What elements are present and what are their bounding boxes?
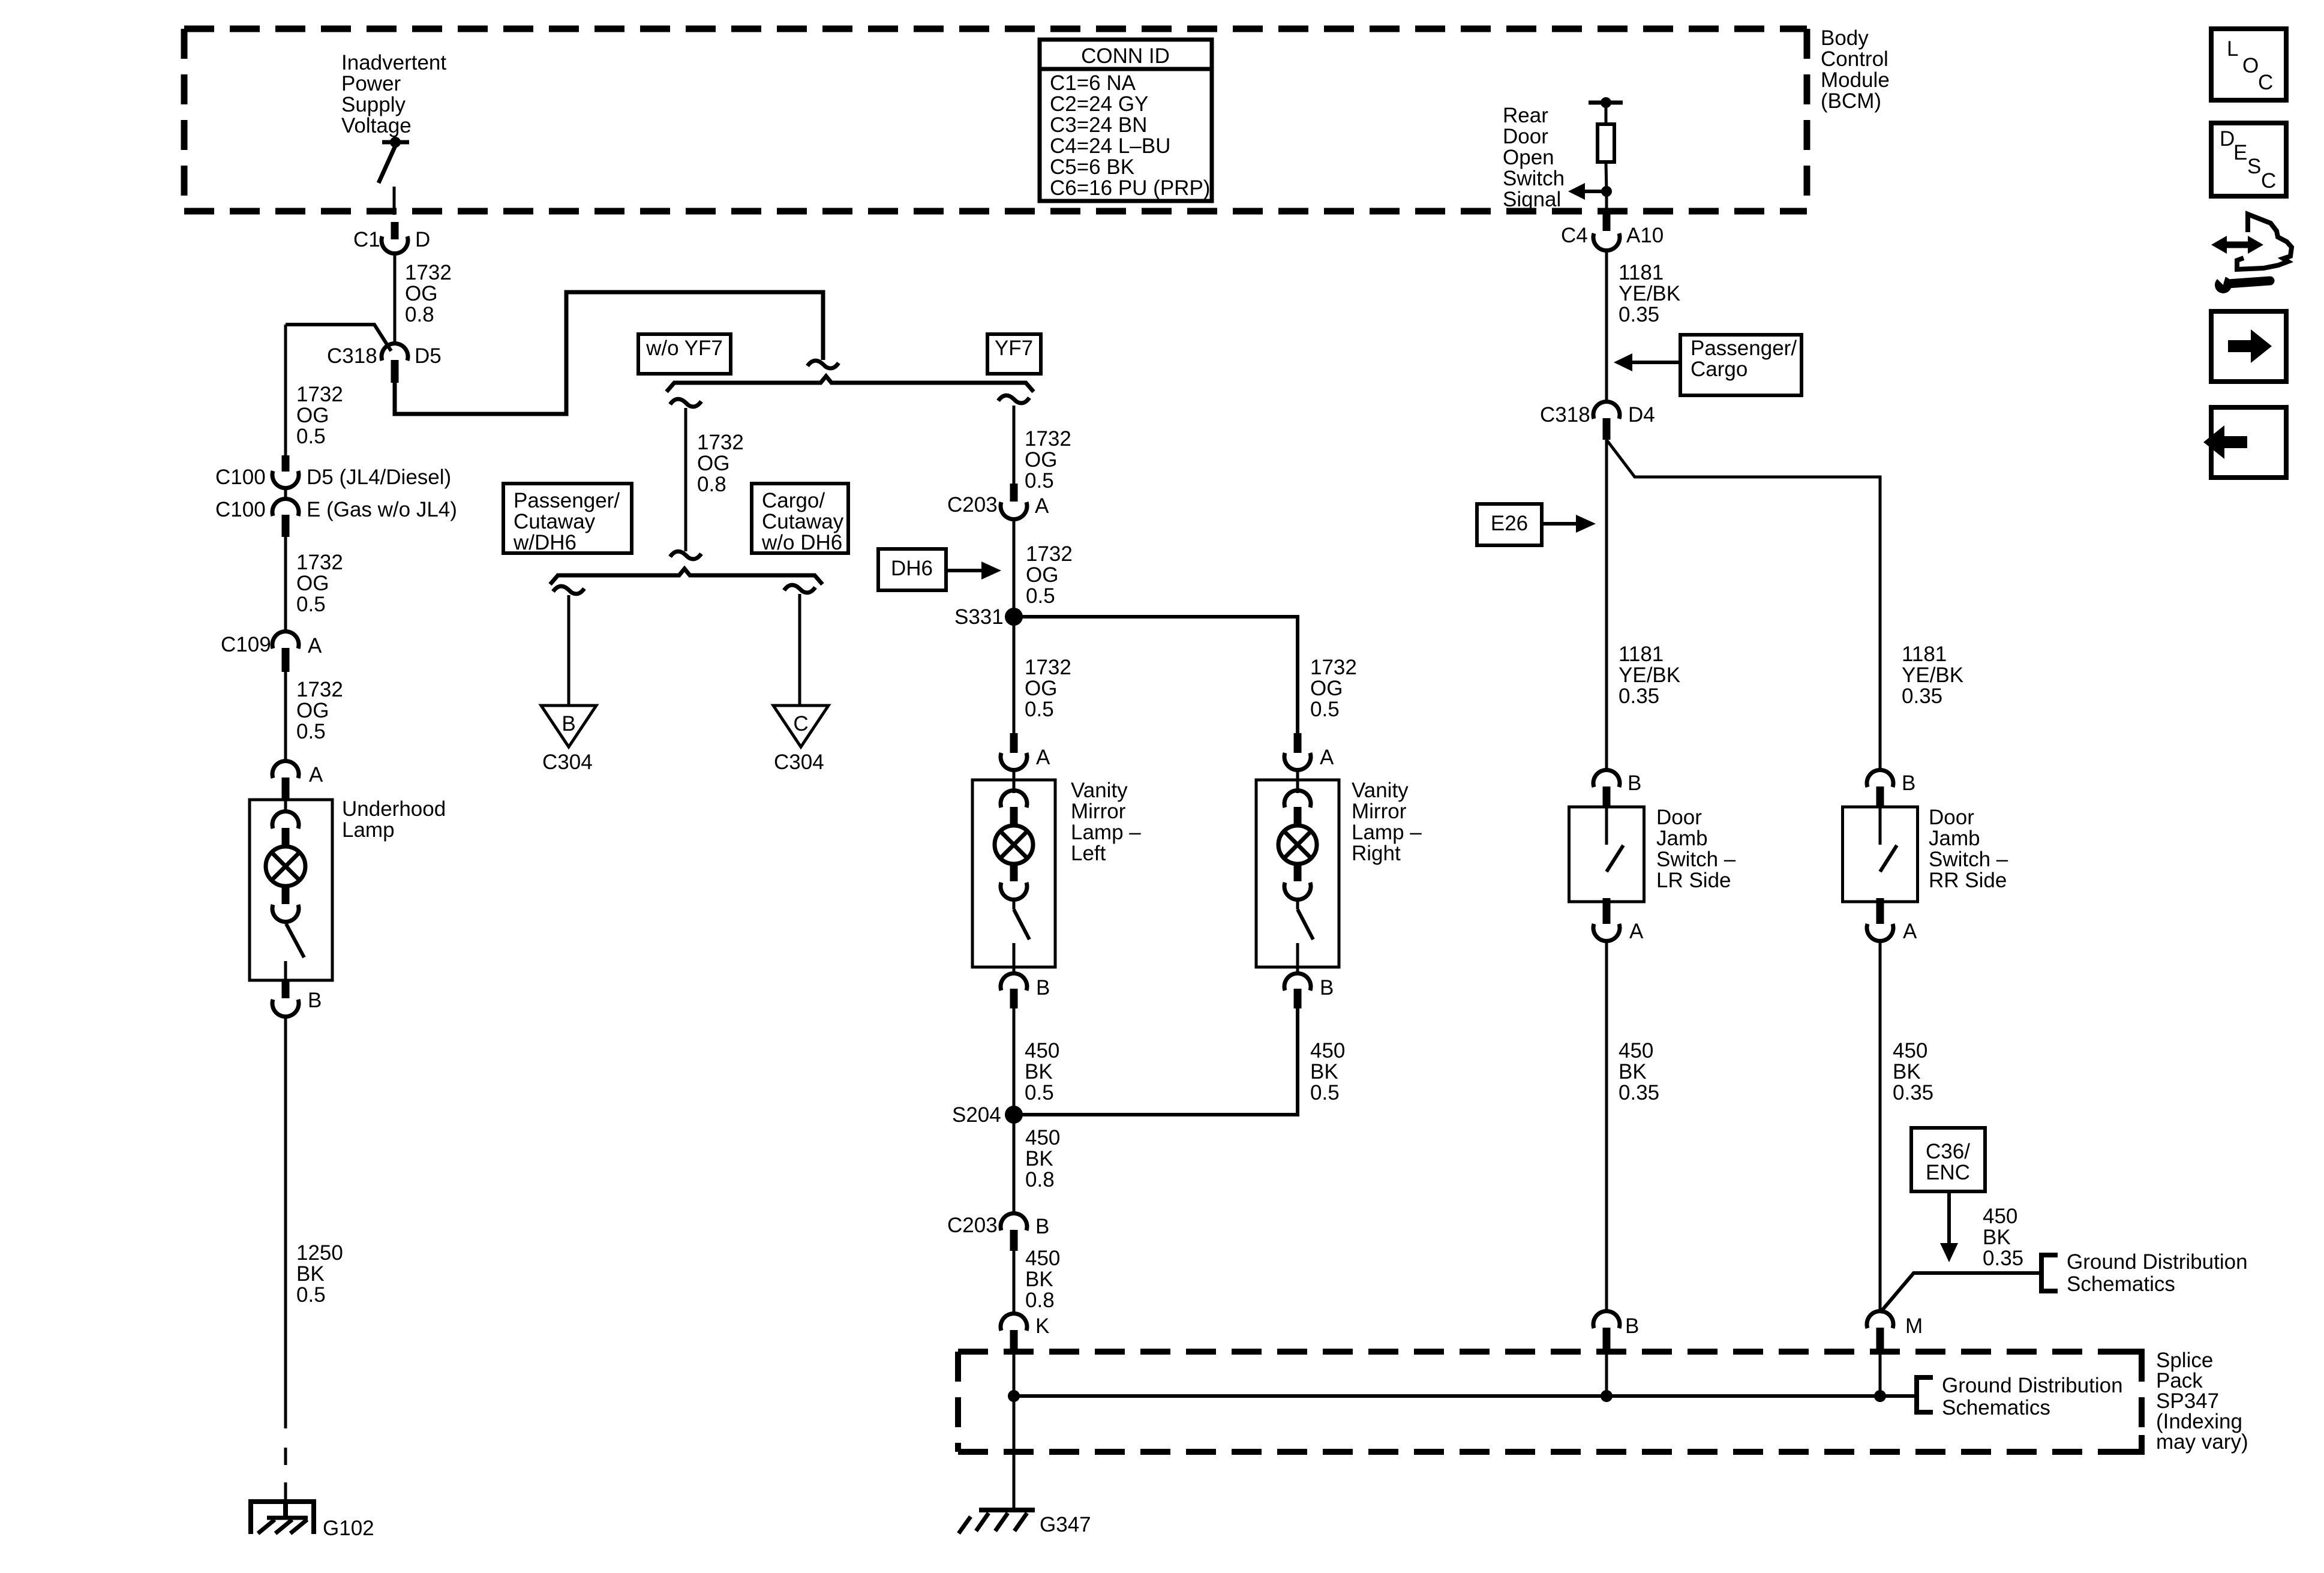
svg-text:C: C (2261, 169, 2276, 193)
wire 450 BK 0.8 C203-B to K (1013, 1251, 1016, 1313)
svg-text:C100: C100 (215, 498, 266, 521)
svg-text:RR Side: RR Side (1929, 869, 2007, 892)
value label 1181 YE/BK 0.35 RR (1902, 643, 1963, 708)
svg-text:BK: BK (1025, 1268, 1053, 1291)
svg-text:Vanity: Vanity (1071, 779, 1128, 802)
svg-text:1732: 1732 (405, 261, 452, 284)
svg-text:B: B (1320, 976, 1334, 999)
label Body Control Module (BCM) (1821, 26, 1890, 113)
svg-text:1181: 1181 (1619, 261, 1664, 284)
svg-text:OG: OG (697, 452, 729, 475)
ground G347 (959, 1510, 1091, 1536)
svg-text:0.35: 0.35 (1983, 1247, 2023, 1270)
svg-text:S331: S331 (954, 605, 1004, 629)
value label 1732 OG 0.8 (405, 261, 452, 326)
svg-text:Underhood: Underhood (342, 797, 446, 821)
bracket ground distribution upper (2041, 1255, 2058, 1291)
svg-text:Mirror: Mirror (1352, 800, 1407, 823)
svg-text:Rear: Rear (1503, 104, 1548, 127)
svg-text:Cargo: Cargo (1691, 358, 1747, 381)
icon LOC box (2211, 29, 2286, 100)
wire 1732 OG 0.5 from C203-A to S331 (1013, 520, 1016, 617)
svg-text:D5 (JL4/Diesel): D5 (JL4/Diesel) (307, 466, 451, 489)
underhood lamp mercury switch (286, 921, 304, 980)
svg-text:BK: BK (1619, 1060, 1647, 1083)
ground G102 (248, 1502, 374, 1540)
svg-text:0.35: 0.35 (1619, 303, 1659, 326)
svg-text:0.35: 0.35 (1893, 1081, 1933, 1104)
label Door Jamb Switch - RR Side (1929, 806, 2008, 892)
svg-text:Jamb: Jamb (1656, 827, 1708, 850)
wire 1181 YE/BK 0.35 down to LR switch (1605, 440, 1608, 769)
svg-text:B: B (562, 712, 575, 736)
svg-text:0.5: 0.5 (1026, 584, 1055, 608)
wire to connector C304-C (798, 594, 801, 706)
pin labels B and A LR switch (1628, 772, 1644, 943)
svg-text:Mirror: Mirror (1071, 800, 1126, 823)
vanity mirror lamp - right (1256, 733, 1339, 1008)
svg-text:C304: C304 (542, 751, 593, 774)
svg-text:Supply: Supply (341, 93, 406, 116)
wire break squiggle w/o YF7 branch (670, 399, 701, 407)
svg-text:D: D (2220, 127, 2235, 151)
wire to connector C304-B (568, 595, 571, 706)
svg-text:Control: Control (1821, 47, 1888, 71)
svg-text:0.8: 0.8 (1025, 1168, 1055, 1191)
svg-text:Door: Door (1929, 806, 1974, 829)
svg-text:Open: Open (1503, 146, 1554, 169)
svg-text:1732: 1732 (1310, 656, 1357, 679)
bracket ground distribution lower (1917, 1377, 1933, 1412)
svg-text:OG: OG (1025, 677, 1057, 700)
svg-text:A: A (309, 763, 323, 786)
off-page triangle C (C304) (773, 706, 828, 774)
svg-text:Passenger/: Passenger/ (1691, 337, 1797, 360)
option tag E26 with arrow (1477, 504, 1596, 545)
svg-text:450: 450 (1025, 1039, 1059, 1062)
svg-text:Power: Power (341, 72, 401, 95)
label Splice Pack SP347 (Indexing may vary) (2156, 1349, 2248, 1454)
svg-text:450: 450 (1619, 1039, 1653, 1062)
junction K wire on bus (1008, 1390, 1020, 1402)
svg-text:1732: 1732 (296, 383, 343, 406)
svg-text:D4: D4 (1628, 403, 1655, 427)
connector C100 pin D5 (JL4/Diesel) (215, 455, 451, 489)
wire 450 BK 0.5 left lamp to S204 (1013, 1008, 1016, 1115)
svg-text:Schematics: Schematics (1942, 1396, 2050, 1419)
svg-text:0.5: 0.5 (296, 1283, 326, 1307)
svg-text:Voltage: Voltage (341, 114, 412, 137)
label Vanity Mirror Lamp - Left (1071, 779, 1141, 865)
underhood lamp internal connector bottom (272, 886, 299, 922)
option tag DH6 with arrow (878, 549, 1001, 590)
svg-text:B: B (1036, 976, 1050, 999)
underhood lamp internal connector top (272, 800, 299, 846)
value label 1732 OG 0.5 right (1310, 656, 1357, 721)
wire B to splice bus (1605, 1352, 1608, 1396)
value label 1732 OG 0.5 (296, 551, 343, 616)
door jamb switch - RR side (1843, 770, 1918, 941)
svg-text:LR Side: LR Side (1656, 869, 1731, 892)
option box Cargo/Cutaway w/o DH6 (752, 484, 848, 554)
wire dashed segment to ground (284, 1448, 287, 1500)
svg-text:K: K (1035, 1314, 1049, 1338)
svg-text:0.5: 0.5 (296, 720, 326, 743)
wire 1732 OG 0.5 down to C100 (284, 325, 287, 459)
junction B wire on bus (1601, 1390, 1613, 1402)
connector C1 pin D (353, 222, 430, 254)
svg-text:1732: 1732 (1025, 656, 1071, 679)
svg-text:1732: 1732 (296, 551, 343, 574)
wire break squiggle passenger branch (553, 586, 584, 594)
pin labels A and B left lamp (1036, 746, 1050, 999)
svg-text:Schematics: Schematics (2067, 1272, 2175, 1296)
wire break squiggle at option split (807, 361, 839, 368)
svg-text:Ground Distribution: Ground Distribution (2067, 1250, 2248, 1274)
value label 1732 OG 0.5 (1026, 542, 1073, 608)
svg-text:1732: 1732 (1026, 542, 1073, 566)
svg-text:Body: Body (1821, 26, 1869, 50)
svg-text:Switch –: Switch – (1929, 848, 2008, 871)
svg-text:0.5: 0.5 (1310, 698, 1340, 721)
svg-text:Lamp –: Lamp – (1352, 821, 1422, 844)
svg-text:OG: OG (1025, 448, 1057, 472)
value label 1181 YE/BK 0.35 (1619, 261, 1680, 326)
icon DESC box (2211, 123, 2286, 196)
label Ground Distribution Schematics upper (2067, 1250, 2248, 1296)
svg-text:C109: C109 (221, 633, 271, 656)
svg-text:Ground Distribution: Ground Distribution (1942, 1374, 2123, 1397)
svg-text:S: S (2247, 155, 2261, 178)
svg-text:C36/: C36/ (1926, 1140, 1970, 1163)
svg-text:E: E (2233, 141, 2247, 164)
label Ground Distribution Schematics lower (1942, 1374, 2123, 1419)
value label 450 BK 0.35 C36 (1983, 1205, 2023, 1270)
svg-text:450: 450 (1025, 1247, 1060, 1270)
svg-text:OG: OG (296, 572, 329, 595)
svg-text:C5=6 BK: C5=6 BK (1050, 155, 1134, 179)
wire 1732 OG 0.5 YF7 branch to C203 (1013, 406, 1016, 484)
svg-text:0.8: 0.8 (697, 473, 726, 496)
svg-text:Module: Module (1821, 68, 1890, 92)
svg-text:(BCM): (BCM) (1821, 89, 1881, 113)
connector C4 pin A10 (1561, 213, 1664, 251)
svg-text:Left: Left (1071, 842, 1106, 865)
option box YF7 (987, 334, 1041, 374)
svg-text:w/o DH6: w/o DH6 (761, 531, 842, 554)
node + signal arrow on rear door wire (1568, 183, 1612, 215)
svg-text:YE/BK: YE/BK (1902, 664, 1963, 687)
wire 1181 YE/BK 0.35 C4 to C318-D4 (1605, 251, 1608, 400)
splice bus wire inside SP347 (1014, 1394, 1915, 1398)
svg-text:C100: C100 (215, 466, 266, 489)
svg-text:450: 450 (1310, 1039, 1345, 1062)
svg-text:450: 450 (1893, 1039, 1927, 1062)
value label 450 BK 0.5 right (1310, 1039, 1345, 1104)
resistor (rear door open switch pull-up) inside BCM (1589, 97, 1623, 191)
svg-text:0.35: 0.35 (1902, 685, 1942, 708)
svg-text:E26: E26 (1491, 512, 1528, 535)
icon left arrow box (2203, 407, 2286, 478)
label Rear Door Open Switch Signal (1503, 104, 1565, 211)
off-page triangle B (C304) (541, 706, 596, 774)
svg-text:0.5: 0.5 (1310, 1081, 1340, 1104)
CONN ID table (1040, 40, 1212, 201)
icon repair (car + double arrow + wrench) (2211, 214, 2292, 293)
wire 1732 OG 0.5 to C109 (284, 535, 287, 630)
wire 1732 OG 0.5 to underhood lamp (284, 672, 287, 760)
svg-text:Door: Door (1503, 125, 1548, 148)
svg-text:1732: 1732 (296, 678, 343, 701)
option tag Passenger/Cargo with arrow (1614, 335, 1801, 395)
svg-text:B: B (1625, 1314, 1639, 1338)
option box Passenger/Cutaway w/DH6 (503, 484, 632, 554)
svg-text:Cutaway: Cutaway (514, 510, 596, 533)
svg-text:0.8: 0.8 (1025, 1289, 1055, 1312)
connector pin K (1001, 1313, 1049, 1353)
value label 1732 OG 0.5 left (1025, 656, 1071, 721)
wire stub RR to ground distribution (1880, 1273, 2039, 1313)
svg-text:BK: BK (296, 1262, 325, 1286)
connector C318 pin D5 (327, 343, 442, 383)
value label 450 BK 0.5 left (1025, 1039, 1059, 1104)
label Inadvertent Power Supply Voltage (341, 51, 446, 137)
svg-text:BK: BK (1893, 1060, 1921, 1083)
svg-text:BK: BK (1025, 1147, 1053, 1170)
connector pin B of underhood lamp (272, 980, 322, 1017)
wire break squiggle cargo branch (784, 585, 815, 593)
wire 450 BK 0.35 LR switch to splice B (1605, 942, 1608, 1310)
svg-text:OG: OG (1310, 677, 1343, 700)
svg-text:450: 450 (1025, 1126, 1060, 1149)
connector C109 pin A (221, 631, 322, 672)
svg-text:OG: OG (1026, 563, 1058, 587)
svg-text:0.5: 0.5 (1025, 469, 1054, 493)
svg-text:Right: Right (1352, 842, 1401, 865)
wire M to splice bus (1879, 1352, 1882, 1396)
vanity mirror lamp - left (972, 733, 1055, 1008)
svg-text:BK: BK (1983, 1226, 2011, 1249)
svg-text:BK: BK (1310, 1060, 1338, 1083)
svg-text:G347: G347 (1040, 1513, 1091, 1536)
svg-text:C4=24 L–BU: C4=24 L–BU (1050, 134, 1170, 158)
svg-text:G102: G102 (323, 1517, 374, 1540)
svg-text:OG: OG (296, 404, 329, 427)
svg-text:C203: C203 (947, 493, 998, 517)
label Door Jamb Switch - LR Side (1656, 806, 1736, 892)
wire branch from C318-D4 to RR door jamb switch (1607, 440, 1880, 769)
wire break squiggle above passenger/cargo brace (670, 551, 701, 559)
svg-text:may vary): may vary) (2156, 1430, 2248, 1454)
switch inside BCM (inadvertent power) (379, 137, 409, 215)
svg-text:OG: OG (405, 282, 437, 305)
svg-text:1732: 1732 (1025, 427, 1071, 451)
connector C203 pin A (947, 484, 1049, 520)
svg-text:C4: C4 (1561, 224, 1588, 247)
svg-text:1250: 1250 (296, 1241, 343, 1265)
connector C36/ENC tag with arrow (1911, 1128, 1985, 1262)
svg-text:C1=6 NA: C1=6 NA (1050, 71, 1136, 95)
svg-text:YF7: YF7 (995, 337, 1033, 360)
svg-text:C203: C203 (947, 1214, 998, 1237)
svg-text:Cargo/: Cargo/ (762, 489, 825, 512)
underhood lamp bulb (266, 846, 305, 886)
value label 1250 BK 0.5 (296, 1241, 343, 1307)
svg-text:C3=24 BN: C3=24 BN (1050, 113, 1147, 137)
svg-text:A: A (1036, 746, 1050, 769)
svg-text:Jamb: Jamb (1929, 827, 1980, 850)
value label 1732 OG 0.5 (296, 678, 343, 743)
wire branch from S331 to right vanity lamp (1014, 617, 1298, 734)
label Underhood Lamp (342, 797, 446, 842)
svg-text:YE/BK: YE/BK (1619, 282, 1680, 305)
svg-text:S204: S204 (952, 1103, 1001, 1127)
svg-text:Passenger/: Passenger/ (514, 489, 620, 512)
svg-text:450: 450 (1983, 1205, 2017, 1228)
wire 1732 OG 0.8 from C1-D to C318-D5 (394, 254, 397, 342)
svg-text:0.5: 0.5 (1025, 698, 1054, 721)
connector pin A of underhood lamp (272, 761, 323, 800)
wire branch from C318 area to C100 (286, 325, 391, 351)
splice S204 (952, 1103, 1023, 1127)
svg-text:A: A (1035, 494, 1049, 518)
svg-text:DH6: DH6 (891, 557, 933, 580)
option box w/o YF7 (638, 334, 731, 374)
svg-text:O: O (2242, 54, 2259, 77)
svg-text:A: A (308, 634, 322, 658)
svg-text:B: B (1628, 772, 1641, 795)
svg-text:B: B (308, 989, 322, 1012)
svg-text:C304: C304 (774, 751, 824, 774)
svg-text:A: A (1903, 920, 1917, 943)
svg-text:Inadvertent: Inadvertent (341, 51, 446, 74)
connector pin B at splice pack (1593, 1311, 1639, 1352)
pin labels B and A RR switch (1902, 772, 1917, 943)
connector C100 pin E (Gas w/o JL4) (215, 487, 457, 537)
svg-text:C6=16 PU (PRP): C6=16 PU (PRP) (1050, 176, 1210, 200)
value label 450 BK 0.35 RR (1893, 1039, 1933, 1104)
svg-text:C: C (793, 712, 808, 736)
door jamb switch - LR side (1569, 770, 1644, 941)
wire 450 BK 0.35 RR switch to splice M (1879, 942, 1882, 1313)
BCM module dashed box (184, 29, 1807, 211)
value label 1732 OG 0.8 (697, 431, 744, 496)
svg-text:1732: 1732 (697, 431, 744, 454)
svg-text:D: D (415, 228, 430, 251)
value label 1732 OG 0.5 (296, 383, 343, 448)
wire 1250 BK 0.5 to G102 (284, 1015, 287, 1428)
svg-text:Switch –: Switch – (1656, 848, 1736, 871)
underhood lamp box (250, 800, 332, 980)
svg-text:0.8: 0.8 (405, 303, 434, 326)
pin labels A and B right lamp (1320, 746, 1334, 999)
connector pin M at splice pack (1867, 1311, 1923, 1352)
svg-text:C318: C318 (327, 344, 377, 368)
svg-text:B: B (1035, 1215, 1049, 1238)
svg-text:Door: Door (1656, 806, 1702, 829)
splice pack SP347 dashed box (958, 1352, 2142, 1452)
label Vanity Mirror Lamp - Right (1352, 779, 1422, 865)
svg-text:Cutaway: Cutaway (762, 510, 844, 533)
svg-text:M: M (1905, 1314, 1923, 1338)
svg-text:0.5: 0.5 (296, 425, 326, 448)
svg-text:C2=24 GY: C2=24 GY (1050, 92, 1148, 116)
svg-text:CONN ID: CONN ID (1081, 44, 1170, 68)
svg-text:B: B (1902, 772, 1915, 795)
value label 450 BK 0.8 (1025, 1247, 1060, 1312)
svg-text:Vanity: Vanity (1352, 779, 1409, 802)
svg-text:Lamp –: Lamp – (1071, 821, 1141, 844)
wire jog from C318-D5 to option brace (395, 292, 823, 414)
svg-text:YE/BK: YE/BK (1619, 664, 1680, 687)
wire K to splice pack and G347 (1013, 1353, 1016, 1509)
splice S331 (954, 605, 1023, 629)
svg-text:0.5: 0.5 (296, 593, 326, 616)
svg-text:Lamp: Lamp (342, 818, 395, 842)
svg-text:0.35: 0.35 (1619, 685, 1659, 708)
icon right arrow box (2211, 311, 2286, 382)
svg-text:0.35: 0.35 (1619, 1081, 1659, 1104)
svg-text:w/o YF7: w/o YF7 (645, 337, 723, 360)
value label 450 BK 0.8 (1025, 1126, 1060, 1191)
wire 450 BK 0.8 S204 to C203-B (1013, 1115, 1016, 1212)
svg-text:1181: 1181 (1619, 643, 1664, 666)
svg-text:Signal: Signal (1503, 188, 1561, 211)
option brace Passenger vs Cargo cutaway (550, 569, 822, 584)
value label 1181 YE/BK 0.35 LR (1619, 643, 1680, 708)
connector C318 pin D4 (1540, 401, 1655, 440)
svg-text:Switch: Switch (1503, 167, 1565, 190)
svg-text:1181: 1181 (1902, 643, 1947, 666)
svg-text:A: A (1629, 920, 1644, 943)
svg-text:ENC: ENC (1926, 1161, 1970, 1184)
wire 1732 OG 0.8 w/o YF7 branch (684, 408, 687, 551)
svg-text:C1: C1 (353, 228, 380, 251)
junction M wire on bus (1874, 1390, 1886, 1402)
wire 450 BK 0.5 right lamp to S204 (1014, 1008, 1298, 1115)
value label 1732 OG 0.5 (1025, 427, 1071, 493)
wire break squiggle YF7 branch (998, 395, 1029, 403)
svg-text:D5: D5 (415, 344, 442, 368)
svg-text:w/DH6: w/DH6 (513, 531, 577, 554)
svg-text:C318: C318 (1540, 403, 1590, 427)
option brace w/o YF7 vs YF7 (666, 376, 1034, 392)
svg-text:L: L (2227, 37, 2238, 61)
wire 1732 OG 0.5 S331 down (1013, 617, 1016, 733)
svg-text:C: C (2258, 71, 2273, 94)
svg-text:OG: OG (296, 699, 329, 722)
svg-text:A: A (1320, 746, 1334, 769)
svg-text:A10: A10 (1626, 224, 1664, 247)
connector C203 pin B (947, 1213, 1049, 1251)
value label 450 BK 0.35 LR (1619, 1039, 1659, 1104)
svg-text:BK: BK (1025, 1060, 1053, 1083)
svg-text:0.5: 0.5 (1025, 1081, 1054, 1104)
svg-text:E (Gas w/o JL4): E (Gas w/o JL4) (307, 498, 457, 521)
